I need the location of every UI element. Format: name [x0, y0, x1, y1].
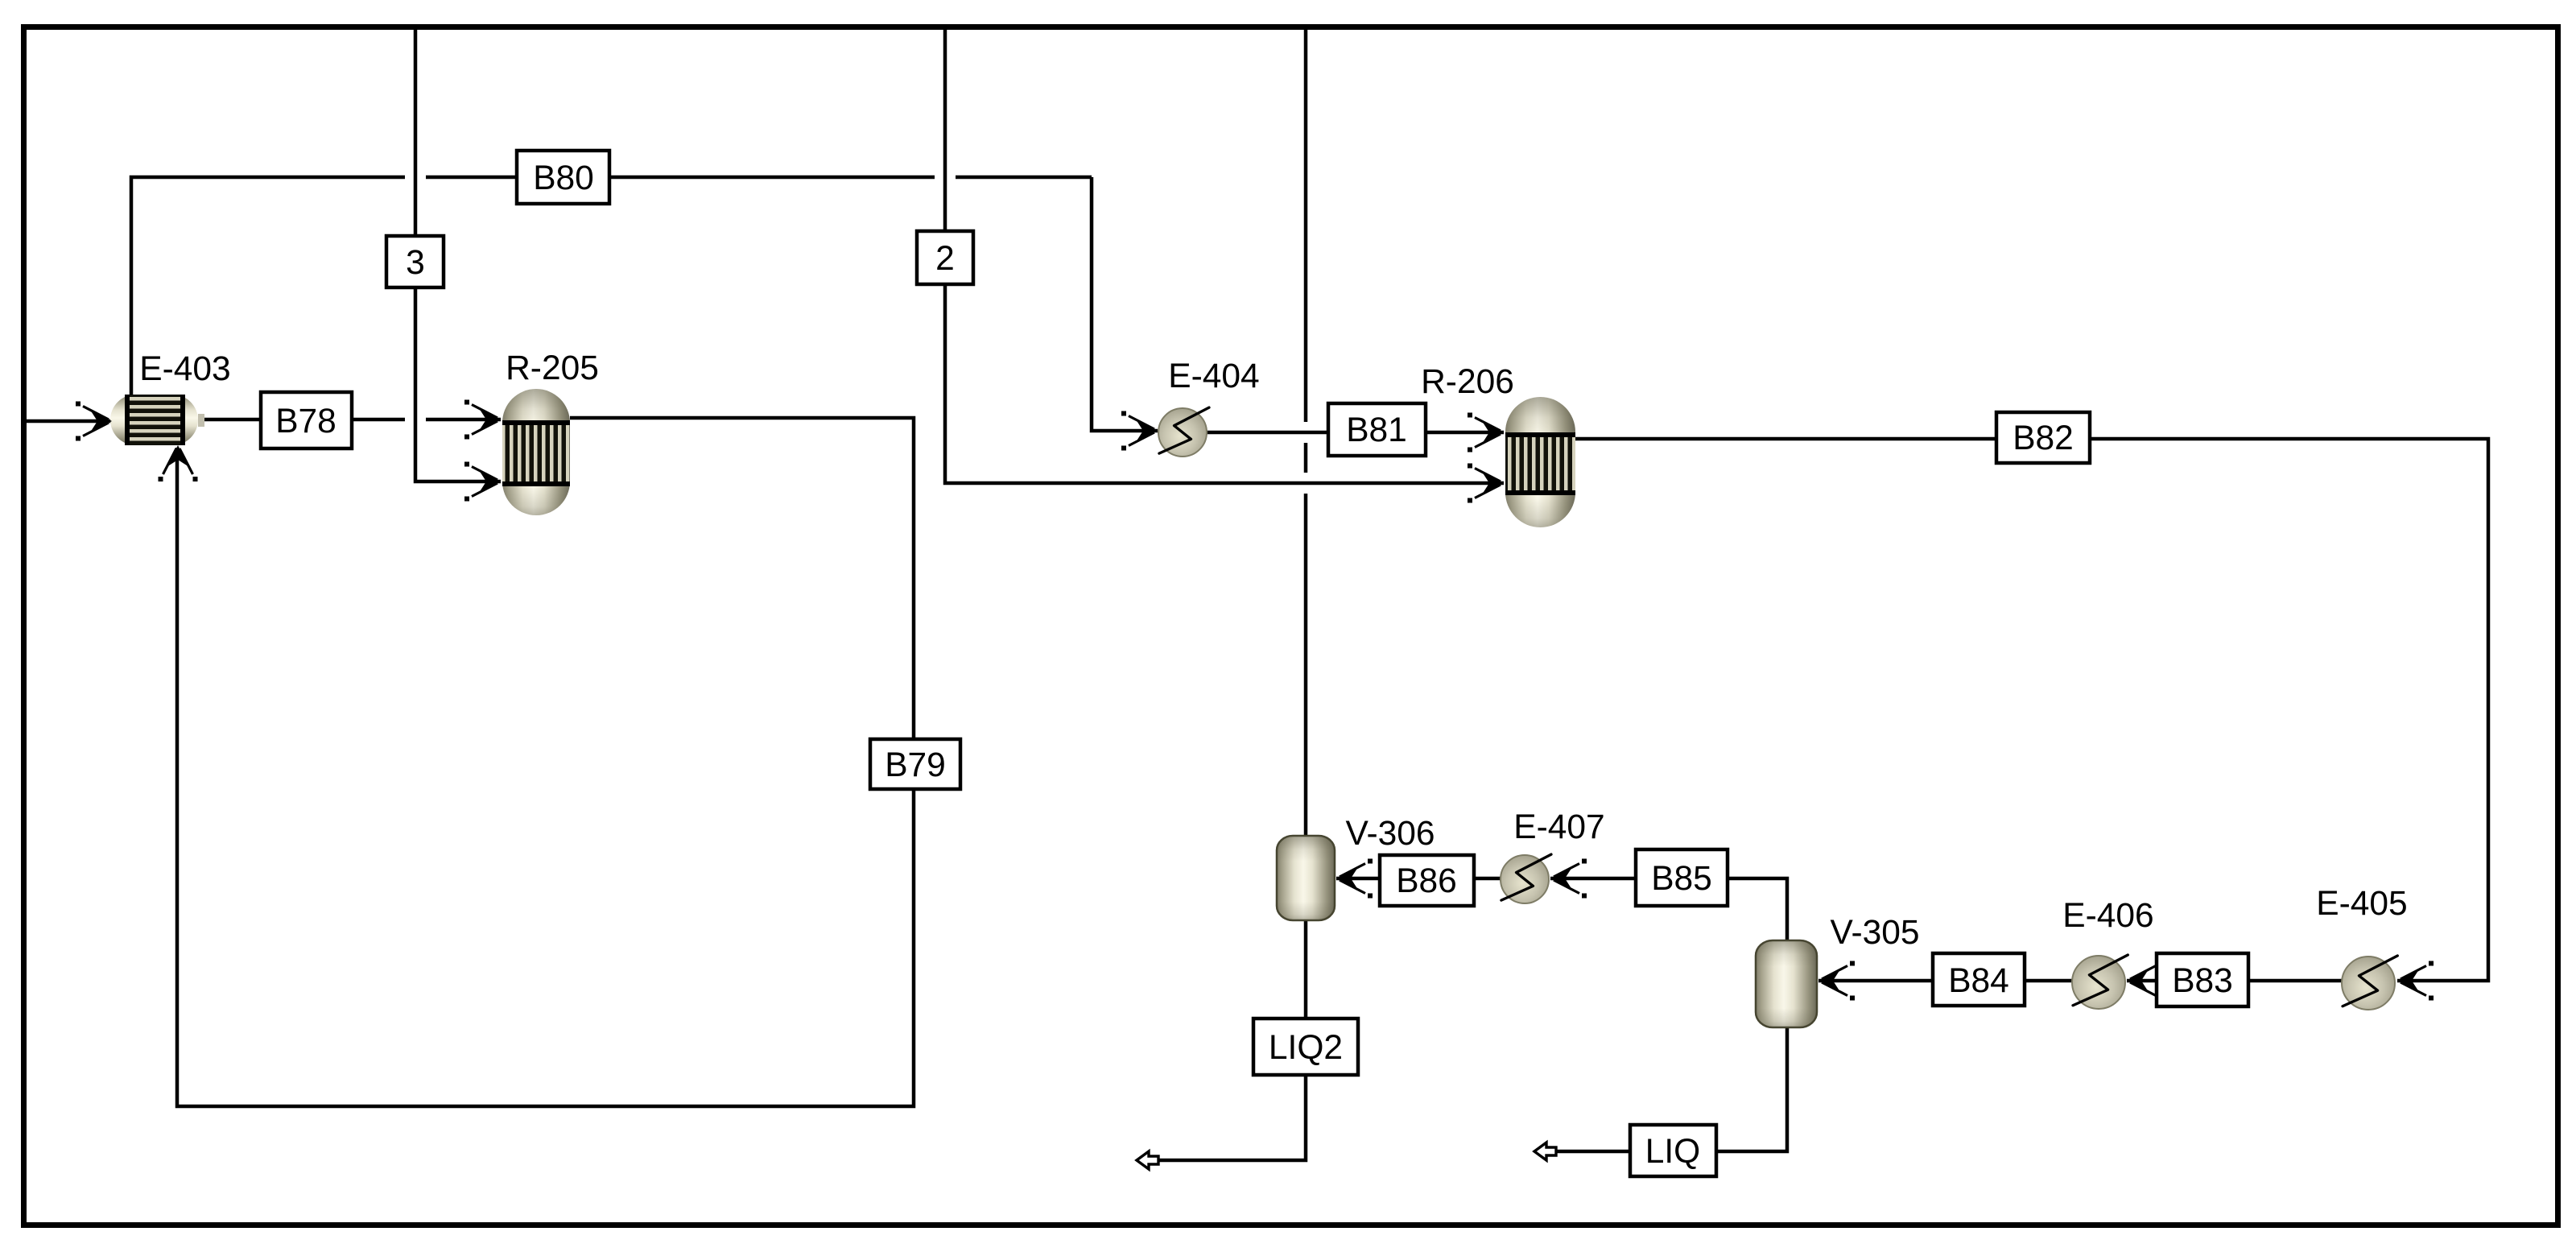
svg-text:B82: B82: [2013, 419, 2074, 457]
svg-text:E-407: E-407: [1513, 808, 1604, 846]
svg-text:B85: B85: [1651, 860, 1712, 898]
svg-text:LIQ: LIQ: [1645, 1133, 1701, 1171]
svg-text:B81: B81: [1346, 411, 1407, 449]
svg-text:E-405: E-405: [2316, 885, 2407, 923]
svg-text:E-404: E-404: [1168, 357, 1259, 395]
svg-text:B83: B83: [2172, 962, 2233, 1000]
svg-text:E-406: E-406: [2062, 897, 2153, 935]
svg-text:E-403: E-403: [139, 350, 230, 388]
svg-text:R-206: R-206: [1421, 363, 1514, 401]
svg-text:V-306: V-306: [1345, 815, 1435, 853]
svg-text:R-205: R-205: [506, 349, 599, 387]
svg-text:B78: B78: [275, 403, 336, 440]
svg-text:B86: B86: [1396, 862, 1457, 900]
svg-text:2: 2: [935, 240, 955, 278]
svg-text:B79: B79: [885, 746, 946, 784]
svg-text:B80: B80: [533, 159, 594, 197]
svg-text:B84: B84: [1948, 962, 2009, 1000]
svg-text:LIQ2: LIQ2: [1269, 1029, 1343, 1067]
svg-text:3: 3: [406, 244, 425, 282]
svg-text:V-305: V-305: [1830, 914, 1919, 952]
